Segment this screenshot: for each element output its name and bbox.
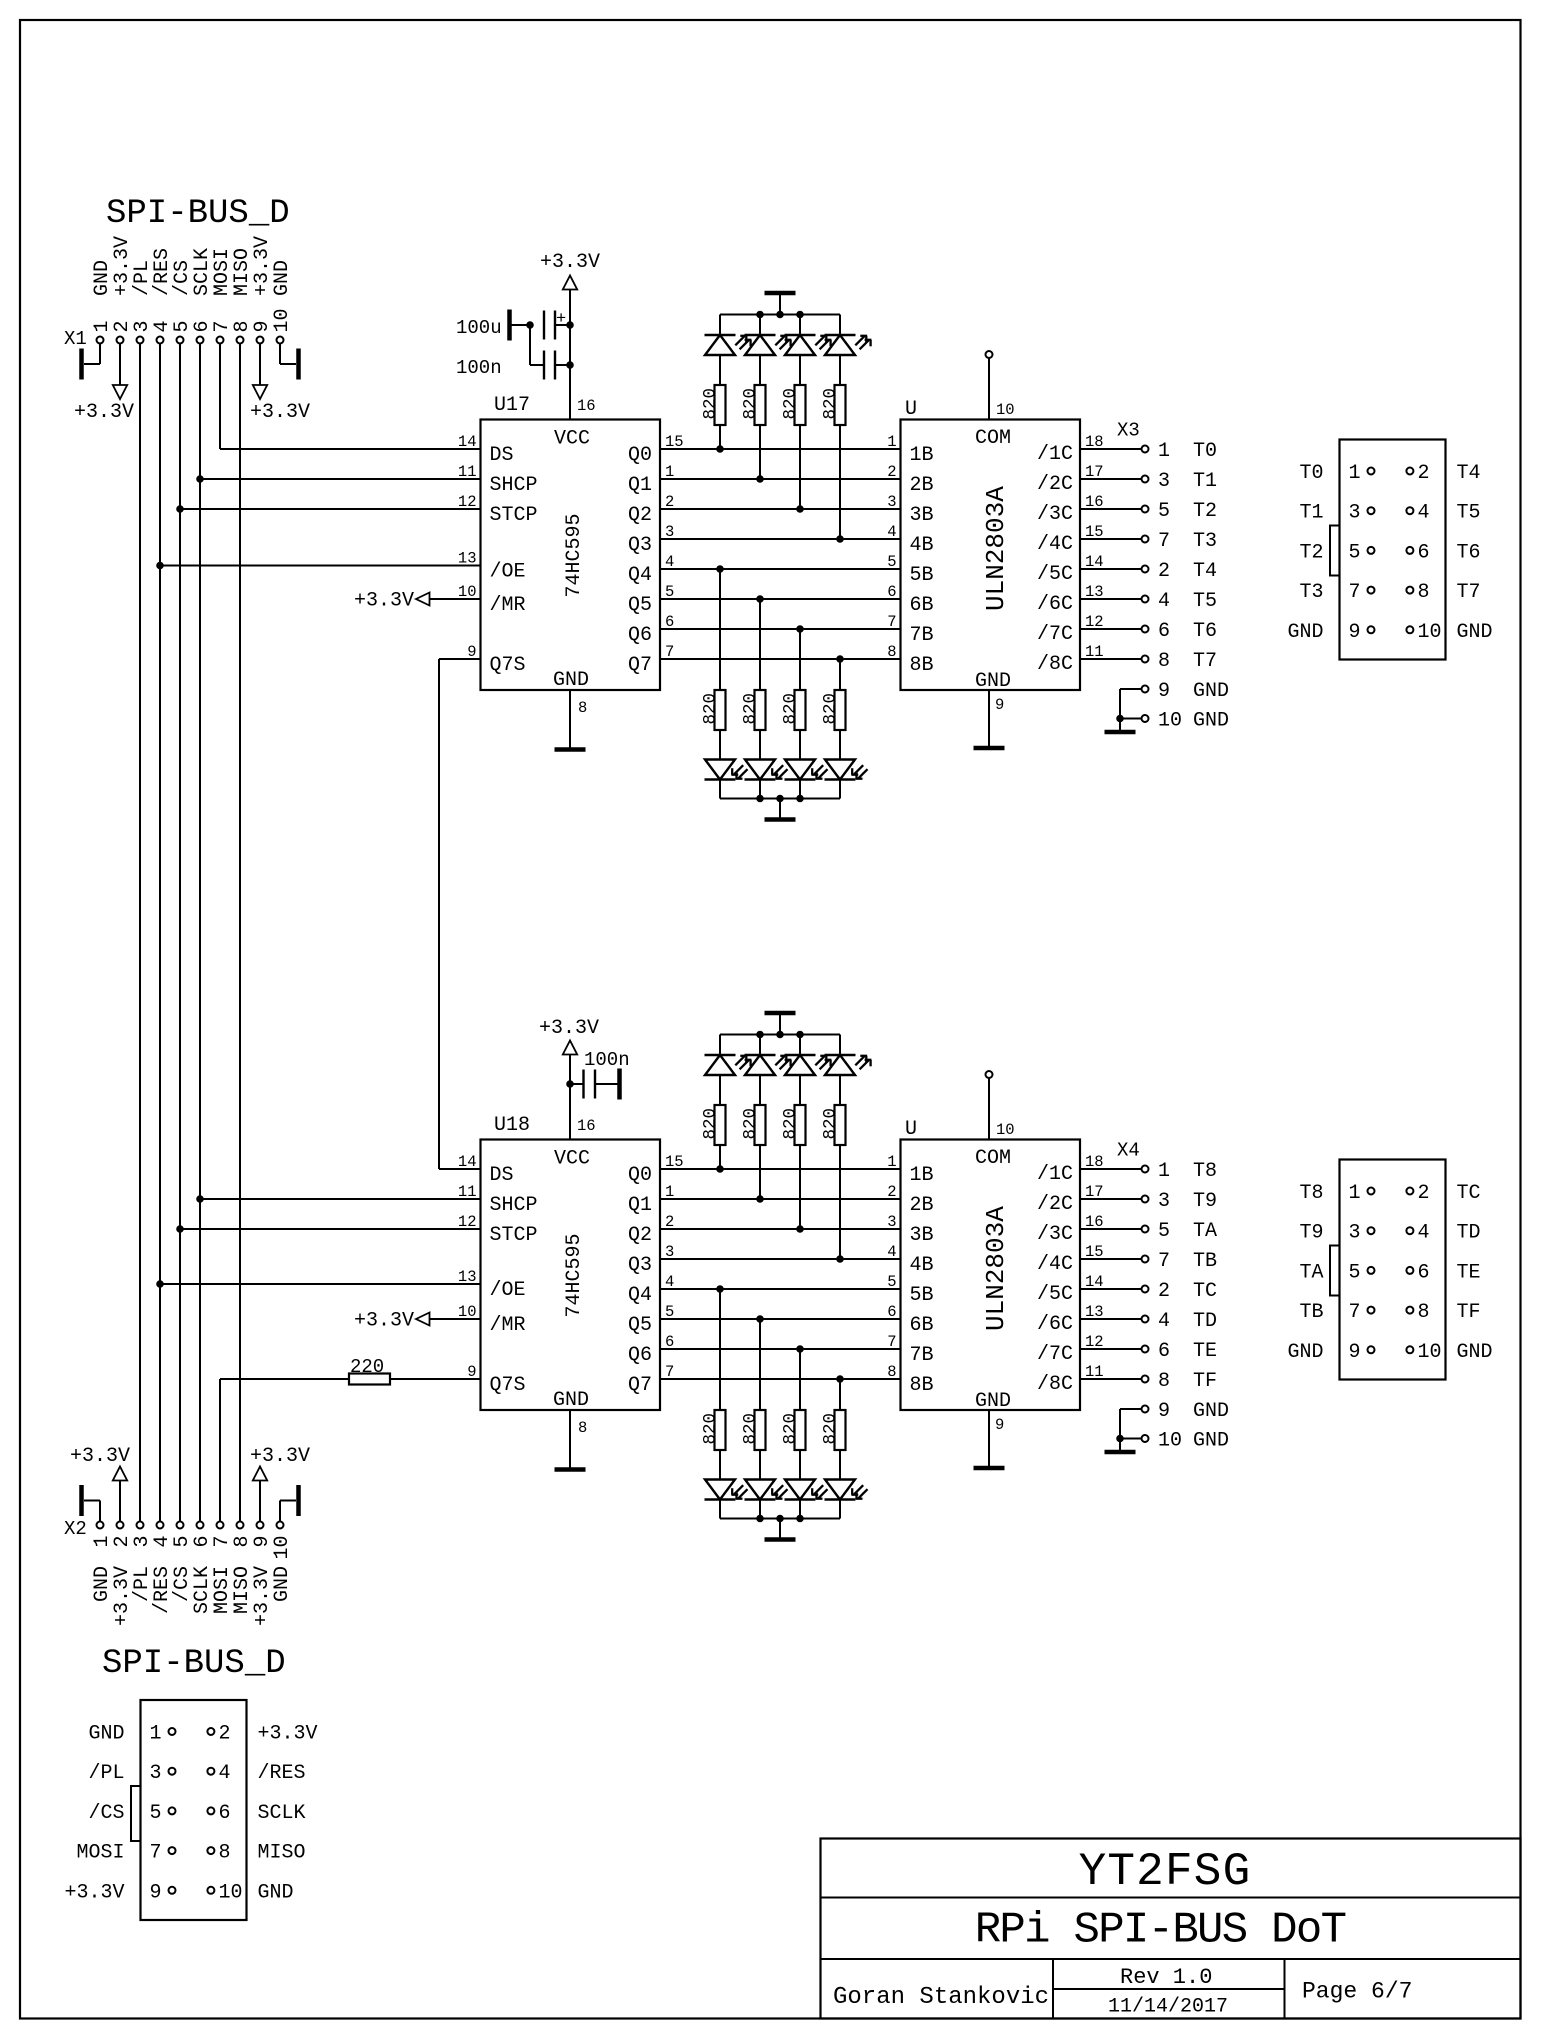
svg-text:1B: 1B — [910, 444, 934, 467]
svg-text:/1C: /1C — [1037, 1163, 1073, 1186]
svg-text:/7C: /7C — [1037, 623, 1073, 646]
connector X1 pin 8 circle — [237, 337, 244, 344]
wire resistor to LED (lower col 2) — [799, 730, 801, 760]
wire resistor to Q1 line — [759, 1145, 761, 1199]
svg-text:3: 3 — [1158, 470, 1170, 493]
wire U18 Q5 to ULN2803A 6B — [660, 1318, 901, 1320]
svg-text:/2C: /2C — [1037, 1193, 1073, 1216]
svg-text:3: 3 — [1349, 502, 1361, 525]
svg-text:8B: 8B — [910, 1374, 934, 1397]
title block outline — [821, 1839, 1521, 2019]
svg-text:STCP: STCP — [490, 1224, 538, 1247]
junction Q7/resistor column — [837, 1376, 844, 1383]
junction /CS/U18 STCP — [177, 1226, 184, 1233]
svg-text:9: 9 — [995, 1416, 1004, 1434]
junction Q5/resistor column — [757, 1316, 764, 1323]
svg-text:16: 16 — [577, 397, 596, 415]
connector X1 pin 6 circle — [197, 337, 204, 344]
connector X3 pin 8 circle — [1406, 587, 1413, 594]
svg-text:820: 820 — [781, 693, 801, 725]
svg-text:10: 10 — [1418, 1341, 1442, 1364]
connector X3 pin 3 circle — [1142, 476, 1149, 483]
svg-text:T1: T1 — [1299, 502, 1323, 525]
svg-text:/PL: /PL — [88, 1762, 124, 1785]
junction upper LED bus x=800 — [797, 311, 804, 318]
svg-text:T6: T6 — [1457, 541, 1481, 564]
GND bar above upper LED group (U18 half) — [765, 1011, 796, 1016]
wire ULN /1C to X4 pin 1 — [1080, 1168, 1142, 1170]
resistor 820 upper col 3 body — [835, 385, 846, 425]
resistor 820 lower col 1 body — [755, 1410, 766, 1450]
ground symbol below U18 — [555, 1467, 586, 1472]
ground symbol below X4 GND pins — [1105, 1450, 1136, 1455]
svg-text:Goran Stankovic: Goran Stankovic — [833, 1984, 1049, 2011]
resistor 820 upper col 1 body — [755, 385, 766, 425]
title block column separators — [1052, 1959, 1054, 2019]
svg-text:GND: GND — [1193, 1430, 1229, 1453]
svg-text:10: 10 — [271, 308, 294, 332]
resistor 820 lower col 2 body — [795, 690, 806, 730]
svg-text:GND: GND — [271, 260, 294, 296]
wire Q5 line to resistor (lower col 1) — [759, 599, 761, 690]
svg-text:100u: 100u — [456, 317, 502, 339]
ground symbol below ULN2803A — [974, 746, 1005, 751]
wire resistor to Q1 line — [759, 425, 761, 479]
resistor 820 lower col 2 body — [795, 1410, 806, 1450]
connector X3 pin 5 circle — [1368, 547, 1375, 554]
wire +3.3V to U18 VCC pin 16 — [569, 1055, 571, 1140]
svg-text:Q6: Q6 — [628, 1344, 652, 1367]
svg-text:T8: T8 — [1299, 1182, 1323, 1205]
resistor 820 upper col 2 body — [795, 385, 806, 425]
wire /CS to U17 STCP — [180, 508, 481, 510]
connector X4 pin 8 circle — [1406, 1307, 1413, 1314]
connector X3 pin 2 circle — [1142, 566, 1149, 573]
LED D0 (lower group) — [705, 778, 736, 780]
junction /RES/U17 /OE — [157, 562, 164, 569]
driver U ULN2803A body — [901, 420, 1081, 691]
wire LED to resistor (upper col 2) — [799, 355, 801, 385]
connector X4 pin 10 circle — [1406, 1346, 1413, 1353]
svg-text:Q1: Q1 — [628, 1194, 652, 1217]
LED D2 (upper group) — [785, 1054, 816, 1056]
svg-text:GND: GND — [1193, 1400, 1229, 1423]
svg-text:1B: 1B — [910, 1164, 934, 1187]
connector X1 pin 7 circle — [217, 337, 224, 344]
svg-text:TD: TD — [1193, 1310, 1217, 1333]
svg-text:6B: 6B — [910, 594, 934, 617]
ground symbol right of 100n (U18) — [617, 1069, 622, 1100]
svg-text:VCC: VCC — [554, 1148, 590, 1171]
svg-text:4: 4 — [1158, 590, 1170, 613]
wire bus to ground (lower LED group) — [779, 799, 781, 819]
svg-text:DS: DS — [490, 1164, 514, 1187]
connector X4 pin 2 circle — [1406, 1188, 1413, 1195]
svg-text:7: 7 — [1349, 581, 1361, 604]
svg-text:Q7: Q7 — [628, 654, 652, 677]
resistor 820 upper col 3 body — [835, 1105, 846, 1145]
svg-text:X2: X2 — [64, 1518, 87, 1540]
wire upper LED column 0 (bus to LED) — [719, 315, 721, 336]
svg-text:7: 7 — [150, 1842, 162, 1865]
LED D1 (lower group) — [745, 1498, 776, 1500]
svg-text:/6C: /6C — [1037, 1313, 1073, 1336]
junction SCLK/U17 SHCP — [197, 476, 204, 483]
wire MISO bus X1-X2 — [239, 344, 241, 1522]
connector X1 pin 10 circle — [277, 337, 284, 344]
svg-text:4: 4 — [219, 1762, 231, 1785]
svg-text:SPI-BUS_D: SPI-BUS_D — [102, 1645, 286, 1683]
svg-text:YT2FSG: YT2FSG — [1079, 1846, 1252, 1898]
svg-text:13: 13 — [458, 550, 477, 568]
svg-text:T9: T9 — [1299, 1222, 1323, 1245]
wire /CS bus X1-X2 — [179, 344, 181, 1522]
svg-text:GND: GND — [1287, 621, 1323, 644]
svg-text:TE: TE — [1193, 1340, 1217, 1363]
svg-text:GND: GND — [88, 1723, 124, 1746]
svg-text:COM: COM — [975, 427, 1011, 450]
wire +3.3V to U17 VCC pin 16 — [569, 290, 571, 420]
wire U18 Q7 to ULN2803A 8B — [660, 1378, 901, 1380]
svg-text:6: 6 — [887, 1303, 896, 1321]
svg-text:Q2: Q2 — [628, 504, 652, 527]
svg-text:TA: TA — [1299, 1261, 1323, 1284]
svg-text:8: 8 — [887, 643, 896, 661]
LED D3 (upper group) — [825, 1054, 856, 1056]
wire X3 GND pins to ground — [1120, 688, 1142, 690]
connector X3 pin 7 circle — [1142, 536, 1149, 543]
capacitor 100n (U18) — [570, 1083, 584, 1085]
LED D0 (upper group) — [705, 334, 736, 336]
junction VCC/100n (U18) — [567, 1081, 574, 1088]
junction /CS/U17 STCP — [177, 506, 184, 513]
wire Q7 line to resistor (lower col 3) — [839, 659, 841, 690]
connector X1 pin 9 circle — [257, 337, 264, 344]
svg-text:2B: 2B — [910, 1194, 934, 1217]
LED D1 (upper group) — [745, 334, 776, 336]
svg-text:74HC595: 74HC595 — [563, 1233, 586, 1317]
wire ULN /8C to X3 pin 8 — [1080, 658, 1142, 660]
svg-text:2: 2 — [219, 1723, 231, 1746]
svg-text:10: 10 — [1418, 621, 1442, 644]
svg-text:10: 10 — [1158, 1430, 1182, 1453]
svg-text:U18: U18 — [494, 1114, 530, 1137]
svg-text:3: 3 — [150, 1762, 162, 1785]
junction VCC/100n — [567, 362, 574, 369]
connector SPI-BUS_D table pin 4 circle — [207, 1768, 214, 1775]
junction lower LED bus x=780 — [777, 795, 784, 802]
wire LED to bus (lower col 0) — [719, 1500, 721, 1519]
junction lower LED bus x=800 — [797, 795, 804, 802]
ground symbol at X1 pin 10 — [279, 344, 281, 365]
wire ULN GND pin to ground — [988, 690, 990, 747]
connector X3 pin 9 circle — [1368, 626, 1375, 633]
ground symbol below ULN2803A — [974, 1466, 1005, 1471]
svg-text:GND: GND — [1193, 680, 1229, 703]
wire ULN /6C to X4 pin 4 — [1080, 1318, 1142, 1320]
svg-text:4B: 4B — [910, 1254, 934, 1277]
wire upper LED column 3 (bus to LED) — [839, 1035, 841, 1056]
junction Q3/resistor column — [837, 1256, 844, 1263]
wire U17 Q0 to ULN2803A 1B — [660, 448, 901, 450]
svg-text:GND: GND — [1457, 1341, 1493, 1364]
svg-text:9: 9 — [1349, 1341, 1361, 1364]
junction lower LED bus x=760 — [757, 1515, 764, 1522]
wire U17 Q3 to ULN2803A 4B — [660, 538, 901, 540]
connector X3 pin 1 circle — [1142, 446, 1149, 453]
connector X1 pin 3 circle — [137, 337, 144, 344]
svg-text:13: 13 — [458, 1268, 477, 1286]
svg-text:7: 7 — [1349, 1301, 1361, 1324]
+3.3V supply symbol at X2 pin 2 — [119, 1481, 121, 1522]
svg-text:4: 4 — [1158, 1310, 1170, 1333]
connector X2 pin 5 circle — [177, 1522, 184, 1529]
svg-text:9: 9 — [150, 1881, 162, 1904]
svg-text:4: 4 — [887, 1243, 896, 1261]
svg-text:/OE: /OE — [490, 1279, 526, 1302]
connector SPI-BUS_D table pin 9 circle — [169, 1887, 176, 1894]
svg-text:GND: GND — [1193, 710, 1229, 733]
svg-text:14: 14 — [458, 1153, 477, 1171]
svg-text:TE: TE — [1457, 1261, 1481, 1284]
svg-text:7B: 7B — [910, 624, 934, 647]
svg-text:T1: T1 — [1193, 470, 1217, 493]
connector X3 pin 4 circle — [1142, 596, 1149, 603]
connector X3 pin 1 circle — [1368, 468, 1375, 475]
resistor 820 upper col 0 body — [715, 1105, 726, 1145]
svg-text:Q2: Q2 — [628, 1224, 652, 1247]
svg-text:12: 12 — [458, 1213, 477, 1231]
svg-text:+3.3V: +3.3V — [539, 1017, 599, 1040]
wire ULN COM pin — [988, 1078, 990, 1140]
junction Q0/resistor column — [717, 446, 724, 453]
wire U17 Q7S to U18 DS (daisy chain) — [439, 658, 481, 660]
LED D3 (upper group) — [825, 334, 856, 336]
wire X4 GND pins to ground — [1120, 1408, 1142, 1410]
svg-text:5B: 5B — [910, 564, 934, 587]
connector X3 pin 4 circle — [1406, 507, 1413, 514]
connector X3 pin 8 circle — [1142, 656, 1149, 663]
connector X4 pin 3 circle — [1142, 1196, 1149, 1203]
svg-text:3: 3 — [887, 493, 896, 511]
wire LED to bus (lower col 1) — [759, 1500, 761, 1519]
svg-text:GND: GND — [1457, 621, 1493, 644]
wire resistor to Q0 line — [719, 425, 721, 449]
svg-text:T3: T3 — [1299, 581, 1323, 604]
capacitor 100u (polarized) — [543, 311, 545, 340]
svg-text:/5C: /5C — [1037, 563, 1073, 586]
wire ULN /2C to X4 pin 3 — [1080, 1198, 1142, 1200]
wire ULN /7C to X3 pin 6 — [1080, 628, 1142, 630]
svg-text:2: 2 — [887, 1183, 896, 1201]
svg-text:T4: T4 — [1457, 462, 1481, 485]
svg-text:Q5: Q5 — [628, 594, 652, 617]
junction Q4/resistor column — [717, 1286, 724, 1293]
svg-text:10: 10 — [996, 401, 1015, 419]
wire ULN /3C to X3 pin 5 — [1080, 508, 1142, 510]
wire ULN GND pin to ground — [988, 1410, 990, 1467]
wire /RES to U17 /OE — [160, 565, 481, 567]
svg-text:TC: TC — [1193, 1280, 1217, 1303]
connector X2 pin 9 circle — [257, 1522, 264, 1529]
svg-text:/MR: /MR — [490, 594, 526, 617]
connector X3 pin 10 circle (GND) — [1142, 715, 1149, 722]
junction lower LED bus x=780 — [777, 1515, 784, 1522]
ground symbol left of 100u — [507, 310, 512, 341]
LED D1 (upper group) — [745, 1054, 776, 1056]
svg-text:/8C: /8C — [1037, 653, 1073, 676]
LED D2 (lower group) — [785, 1498, 816, 1500]
wire MOSI segment to X2 (from 220 ohm resistor) — [219, 1379, 221, 1522]
wire ULN /2C to X3 pin 3 — [1080, 478, 1142, 480]
lower LED group common bus wire — [720, 798, 840, 800]
junction SCLK/U18 SHCP — [197, 1196, 204, 1203]
svg-text:820: 820 — [701, 388, 721, 420]
connector X4 pin 4 circle — [1406, 1227, 1413, 1234]
svg-text:X1: X1 — [64, 328, 87, 350]
+3.3V supply symbol at X1 pin 2 — [119, 344, 121, 386]
svg-text:Q0: Q0 — [628, 1164, 652, 1187]
wire ULN /4C to X4 pin 7 — [1080, 1258, 1142, 1260]
ground symbol at X2 pin 10 — [279, 1501, 281, 1522]
svg-text:GND: GND — [553, 669, 589, 692]
connector X4 pin 4 circle — [1142, 1316, 1149, 1323]
svg-text:Q3: Q3 — [628, 1254, 652, 1277]
svg-text:/4C: /4C — [1037, 533, 1073, 556]
connector X3 pin-table outline — [1340, 440, 1446, 660]
wire ground to capacitors — [511, 324, 530, 326]
wire resistor to Q2 line — [799, 1145, 801, 1229]
svg-text:U17: U17 — [494, 394, 530, 417]
junction Q6/resistor column — [797, 626, 804, 633]
connector X3 pin 9 circle (GND) — [1142, 686, 1149, 693]
junction Q6/resistor column — [797, 1346, 804, 1353]
wire LED to resistor (upper col 3) — [839, 1075, 841, 1105]
wire LED to bus (lower col 3) — [839, 1500, 841, 1519]
svg-text:1: 1 — [887, 433, 896, 451]
LED D1 (lower group) — [745, 778, 776, 780]
wire Q7 line to resistor (lower col 3) — [839, 1379, 841, 1410]
svg-text:1: 1 — [1349, 462, 1361, 485]
svg-text:7: 7 — [1158, 1250, 1170, 1273]
connector X4 pin 9 circle (GND) — [1142, 1406, 1149, 1413]
svg-text:2: 2 — [1158, 560, 1170, 583]
connector X2 pin 2 circle — [117, 1522, 124, 1529]
svg-text:10: 10 — [458, 583, 477, 601]
svg-text:TB: TB — [1193, 1250, 1217, 1273]
connector X2 pin 4 circle — [157, 1522, 164, 1529]
junction Q7/resistor column — [837, 656, 844, 663]
svg-text:10: 10 — [996, 1121, 1015, 1139]
svg-text:8B: 8B — [910, 654, 934, 677]
wire U18 Q1 to ULN2803A 2B — [660, 1198, 901, 1200]
wire Q4 line to resistor (lower col 0) — [719, 569, 721, 690]
wire ULN /5C to X4 pin 2 — [1080, 1288, 1142, 1290]
svg-text:11/14/2017: 11/14/2017 — [1108, 1996, 1228, 2019]
ground symbol below U17 — [555, 747, 586, 752]
wire resistor to LED (lower col 1) — [759, 1450, 761, 1480]
wire LED to resistor (upper col 1) — [759, 1075, 761, 1105]
svg-text:5: 5 — [887, 1273, 896, 1291]
resistor 820 lower col 1 body — [755, 690, 766, 730]
connector SPI-BUS_D table pin 5 circle — [169, 1807, 176, 1814]
connector X4 pin 3 circle — [1368, 1227, 1375, 1234]
svg-text:/7C: /7C — [1037, 1343, 1073, 1366]
wire MOSI from X1 to U17 DS — [219, 344, 221, 450]
connector X3 pin 6 circle — [1406, 547, 1413, 554]
svg-text:820: 820 — [821, 1108, 841, 1140]
junction upper LED bus x=780 — [777, 311, 784, 318]
svg-text:820: 820 — [821, 388, 841, 420]
svg-text:9: 9 — [1158, 680, 1170, 703]
svg-text:6: 6 — [1158, 620, 1170, 643]
svg-text:COM: COM — [975, 1147, 1011, 1170]
svg-text:T8: T8 — [1193, 1160, 1217, 1183]
wire resistor to Q0 line — [719, 1145, 721, 1169]
svg-text:+3.3V: +3.3V — [354, 590, 414, 613]
wire /RES to U18 /OE — [160, 1283, 481, 1285]
svg-text:8: 8 — [578, 1419, 587, 1437]
svg-text:2: 2 — [1418, 1182, 1430, 1205]
svg-text:+3.3V: +3.3V — [250, 401, 310, 424]
svg-text:SHCP: SHCP — [490, 1194, 538, 1217]
svg-text:/MR: /MR — [490, 1314, 526, 1337]
connector X4 pin 1 circle — [1368, 1188, 1375, 1195]
svg-text:10: 10 — [458, 1303, 477, 1321]
resistor 220 body — [349, 1374, 390, 1385]
capacitor 100n — [543, 351, 545, 380]
svg-text:ULN2803A: ULN2803A — [981, 486, 1011, 611]
junction Q2/resistor column — [797, 506, 804, 513]
svg-text:5: 5 — [150, 1802, 162, 1825]
svg-text:11: 11 — [458, 463, 477, 481]
svg-text:/4C: /4C — [1037, 1253, 1073, 1276]
connector X4 pin 7 circle — [1142, 1256, 1149, 1263]
svg-text:GND: GND — [271, 1566, 294, 1602]
connector X2 pin 1 circle — [97, 1522, 104, 1529]
svg-text:220: 220 — [350, 1356, 384, 1378]
wire SCLK to U18 SHCP — [200, 1198, 481, 1200]
svg-text:GND: GND — [975, 1390, 1011, 1413]
svg-text:2B: 2B — [910, 474, 934, 497]
wire upper LED column 2 (bus to LED) — [799, 1035, 801, 1056]
svg-text:1: 1 — [150, 1723, 162, 1746]
connector X4 pin 5 circle — [1368, 1267, 1375, 1274]
svg-text:820: 820 — [741, 693, 761, 725]
junction Q0/resistor column — [717, 1166, 724, 1173]
junction Q1/resistor column — [757, 1196, 764, 1203]
LED D3 (lower group) — [825, 778, 856, 780]
svg-text:+3.3V: +3.3V — [258, 1723, 318, 1746]
wire /RES bus X1-X2 — [159, 344, 161, 1522]
connector X4 pin-table outline — [1340, 1160, 1446, 1380]
svg-text:Q4: Q4 — [628, 564, 652, 587]
wire ULN COM pin — [988, 358, 990, 420]
svg-text:5B: 5B — [910, 1284, 934, 1307]
wire SCLK to U17 SHCP — [200, 478, 481, 480]
wire resistor to LED (lower col 2) — [799, 1450, 801, 1480]
junction 100u/100n ground side — [527, 322, 534, 329]
svg-text:/OE: /OE — [490, 561, 526, 584]
svg-text:MISO: MISO — [258, 1842, 306, 1865]
svg-text:Q7: Q7 — [628, 1374, 652, 1397]
svg-text:SCLK: SCLK — [258, 1802, 306, 1825]
svg-text:+3.3V: +3.3V — [64, 1881, 124, 1904]
svg-text:T6: T6 — [1193, 620, 1217, 643]
title block row separators — [821, 1897, 1521, 1899]
ULN2803A COM pin circle (pin 10 open) — [986, 351, 993, 358]
wire ULN /3C to X4 pin 5 — [1080, 1228, 1142, 1230]
